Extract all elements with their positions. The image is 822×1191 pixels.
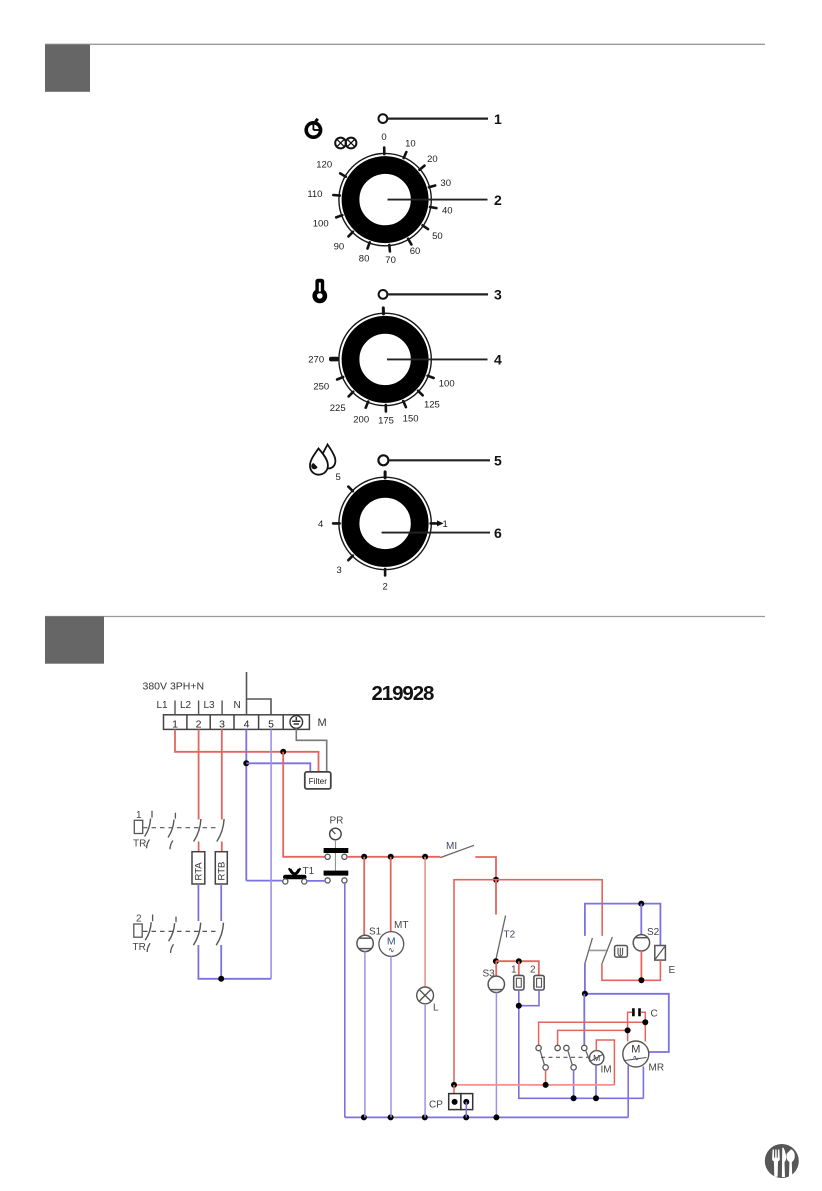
wire red IM feed loop xyxy=(596,1040,614,1085)
node solenoid1 tap xyxy=(516,958,522,964)
svg-text:4: 4 xyxy=(494,352,502,368)
wire blue bottom neutral rail xyxy=(345,1116,628,1118)
svg-text:2: 2 xyxy=(196,718,202,730)
wire L1 red: terminal1 down, right, into filter xyxy=(175,729,319,772)
thermometer icon xyxy=(312,279,327,304)
svg-text:PR: PR xyxy=(330,816,344,827)
wire blue T1 to PR lower contact xyxy=(307,880,325,882)
svg-text:40: 40 xyxy=(442,205,453,216)
wire blue lamp return xyxy=(424,1004,426,1118)
svg-text:2: 2 xyxy=(136,914,142,925)
svg-text:RTB: RTB xyxy=(216,862,227,881)
svg-text:S1: S1 xyxy=(369,927,382,938)
wire red capacitor left leg xyxy=(628,1012,633,1030)
svg-text:100: 100 xyxy=(313,218,329,229)
nodes on mid blue rail xyxy=(571,1095,577,1101)
svg-text:L3: L3 xyxy=(204,700,216,711)
knob K3 pointer line to callout 6 xyxy=(382,532,490,534)
node heater return junction xyxy=(218,976,224,982)
svg-text:S2: S2 xyxy=(647,927,660,938)
node MI/T2 junction xyxy=(493,877,499,883)
terminal stubs above terminals 1-3 xyxy=(175,701,222,715)
wire red main feed down from L1 junction xyxy=(283,752,326,857)
svg-text:70: 70 xyxy=(385,255,396,266)
svg-text:5: 5 xyxy=(494,453,502,469)
node S2 tap xyxy=(638,901,644,907)
svg-text:1: 1 xyxy=(494,111,502,127)
svg-text:0: 0 xyxy=(381,132,386,143)
svg-text:250: 250 xyxy=(313,382,329,393)
callout line 3 xyxy=(388,293,489,295)
capacitor C plates xyxy=(633,1008,639,1016)
wire blue branch to filter xyxy=(246,763,310,772)
wire blue S3 down to bottom rail xyxy=(495,993,497,1118)
svg-text:2: 2 xyxy=(494,192,502,208)
wire N blue: terminal4 down, junction, right to T1 xyxy=(246,729,282,880)
svg-text:219928: 219928 xyxy=(372,682,435,705)
node S2 bottom junction xyxy=(638,977,644,983)
svg-text:1: 1 xyxy=(136,810,142,821)
microswitch MI xyxy=(440,845,474,857)
node selector red tap xyxy=(543,1082,549,1088)
timer icon xyxy=(306,119,320,137)
thermostat TR2 body xyxy=(134,924,142,937)
wire L2 red: terminal2 down to TR1 contact xyxy=(198,729,200,819)
node T2/S3 junction xyxy=(493,958,499,964)
svg-text:4: 4 xyxy=(318,519,323,530)
wire blue PR lower right terminal down to bottom rail xyxy=(344,883,346,1117)
svg-text:E: E xyxy=(669,965,676,976)
TR2 contact arms xyxy=(145,922,223,945)
svg-text:N: N xyxy=(234,700,241,711)
svg-text:3: 3 xyxy=(494,287,502,303)
svg-text:30: 30 xyxy=(440,178,451,189)
TR2 mechanical dashed link xyxy=(143,930,219,932)
svg-text:TR: TR xyxy=(133,839,146,850)
node CP red tap xyxy=(451,1082,457,1088)
knob K1 timer dial xyxy=(333,148,436,252)
PE earth terminal symbol xyxy=(290,716,303,729)
wire red S1 drop xyxy=(363,857,365,936)
knob K3 scale numbers 1-5 xyxy=(318,472,448,593)
wire blue RTB down to TR2 xyxy=(220,884,222,921)
knob K2 pointer line to callout 4 xyxy=(387,358,488,360)
terminal numbers 1 2 3 4 5 xyxy=(172,718,274,730)
svg-text:125: 125 xyxy=(424,400,440,411)
wire red MI to T2 junction xyxy=(475,857,496,880)
speed selector contact terminals xyxy=(536,1045,587,1070)
wire terminal5 blue down to heater return rail xyxy=(270,729,272,978)
callout line 5 xyxy=(389,459,491,461)
knob K2 temperature dial xyxy=(329,308,434,412)
wire red capacitor right leg xyxy=(641,1012,646,1022)
lamp L xyxy=(417,987,434,1004)
svg-text:20: 20 xyxy=(427,154,438,165)
wire red T2 drop xyxy=(495,880,497,915)
callout line 1 xyxy=(387,117,488,119)
svg-text:T1: T1 xyxy=(303,866,315,877)
knob K1 scale numbers 0-120 xyxy=(307,132,452,266)
svg-text:TR: TR xyxy=(133,942,146,953)
PR gauge xyxy=(330,828,342,840)
N supply line into terminal 4 and bridge to terminal 5 xyxy=(247,672,272,715)
wire red speed line 2 xyxy=(558,1030,628,1045)
node cap left junction xyxy=(625,1027,631,1033)
svg-text:1: 1 xyxy=(172,718,178,730)
PR lower contact terminals xyxy=(325,878,330,883)
svg-text:L2: L2 xyxy=(180,700,192,711)
wire blue RTA down to TR2 xyxy=(197,884,199,921)
svg-text:4: 4 xyxy=(244,718,250,730)
section 1 gray marker square xyxy=(45,45,90,92)
svg-text:380V 3PH+N: 380V 3PH+N xyxy=(143,681,205,693)
wire red cross rail y880 xyxy=(454,880,602,1085)
svg-text:3: 3 xyxy=(219,718,225,730)
wire red S2/E bottom rail xyxy=(602,960,661,980)
filter box xyxy=(305,772,331,789)
switch T1 symbol xyxy=(283,868,307,884)
footer cutlery logo xyxy=(765,1144,799,1178)
svg-text:1: 1 xyxy=(442,519,447,530)
wire red bottom feed rail xyxy=(454,1084,614,1086)
svg-text:∿: ∿ xyxy=(388,946,394,955)
node junction on L1 feed xyxy=(280,749,286,755)
svg-text:50: 50 xyxy=(432,231,443,242)
svg-text:IM: IM xyxy=(601,1065,612,1076)
svg-text:C: C xyxy=(651,1009,658,1020)
svg-text:M: M xyxy=(318,717,327,729)
wire red lamp L drop xyxy=(424,857,426,987)
svg-text:80: 80 xyxy=(359,253,370,264)
contactor U twin contacts xyxy=(585,937,613,964)
section 2 gray marker square xyxy=(45,616,104,663)
PR upper contact terminals xyxy=(325,854,330,859)
svg-text:270: 270 xyxy=(308,355,324,366)
wire blue MT return xyxy=(390,956,392,1117)
svg-text:1: 1 xyxy=(511,965,517,976)
wire red TR1 to RTA xyxy=(198,842,200,852)
terminal block M xyxy=(164,715,310,730)
svg-text:L1: L1 xyxy=(157,700,169,711)
svg-text:Filter: Filter xyxy=(309,776,328,786)
node cap right junction xyxy=(642,1019,648,1025)
indicator circle above K1 xyxy=(379,114,388,123)
section 1 header rule xyxy=(45,43,765,45)
svg-text:L: L xyxy=(433,1003,439,1014)
svg-text:3: 3 xyxy=(336,565,341,576)
wire red CP drop xyxy=(453,1085,455,1102)
wire blue contact 4 drop xyxy=(583,994,585,1046)
svg-text:150: 150 xyxy=(403,413,419,424)
wire blue upper right rail xyxy=(585,904,661,946)
PR contact bar upper xyxy=(324,848,349,853)
wire red selector common to bottom rail xyxy=(545,1070,547,1085)
svg-text:5: 5 xyxy=(335,472,340,483)
TR1 contact poles (stubs) xyxy=(147,811,176,850)
wire red MT drop xyxy=(390,857,392,932)
svg-text:MT: MT xyxy=(394,920,408,931)
svg-text:120: 120 xyxy=(316,160,332,171)
wire blue S1 return xyxy=(364,952,366,1118)
svg-text:60: 60 xyxy=(410,246,421,257)
svg-text:90: 90 xyxy=(334,241,345,252)
speed selector arms xyxy=(540,1050,590,1065)
knob K2 scale numbers 100-270 xyxy=(308,355,454,427)
svg-text:∿: ∿ xyxy=(632,1054,639,1063)
node S1 tap xyxy=(361,854,367,860)
svg-text:6: 6 xyxy=(494,525,502,541)
wire blue heater return rail xyxy=(198,945,271,979)
wire blue IM return xyxy=(595,1065,597,1098)
wire red speed line 1 xyxy=(539,1022,646,1045)
nodes on bottom neutral rail xyxy=(361,1114,367,1120)
coil box U xyxy=(615,946,628,958)
thermostat TR1 body xyxy=(134,820,142,833)
svg-text:200: 200 xyxy=(353,415,369,426)
svg-text:175: 175 xyxy=(378,415,394,426)
motor IM xyxy=(590,1051,604,1065)
wire blue CP return xyxy=(465,1102,467,1118)
svg-text:2: 2 xyxy=(530,965,536,976)
wire red TR1 to RTB xyxy=(221,842,223,852)
svg-text:T2: T2 xyxy=(504,930,516,941)
section 2 header rule xyxy=(45,616,765,618)
heating element RTA xyxy=(192,852,205,884)
svg-text:5: 5 xyxy=(268,718,274,730)
wire blue left down to MR rail xyxy=(584,963,586,993)
svg-text:100: 100 xyxy=(439,379,455,390)
speed selector dashed link xyxy=(541,1056,592,1058)
svg-text:10: 10 xyxy=(405,138,416,149)
svg-text:MR: MR xyxy=(649,1063,665,1074)
wire blue selector pole2 to mid rail xyxy=(573,1070,575,1098)
wire L3 red: terminal3 down to TR1 contact xyxy=(221,729,223,819)
heating element RTB xyxy=(215,852,227,884)
svg-text:2: 2 xyxy=(382,581,387,592)
water drops icon xyxy=(310,445,335,475)
wire red S3 rail to solenoids 1,2 xyxy=(496,961,539,975)
svg-text:110: 110 xyxy=(307,189,322,200)
node junction terminal4/filter branch xyxy=(243,760,249,766)
svg-text:225: 225 xyxy=(330,403,346,414)
knob K1 pointer line to callout 2 xyxy=(388,199,488,201)
node MR rail junction xyxy=(582,991,588,997)
PR actuator link xyxy=(334,840,336,871)
node MT tap xyxy=(388,854,394,860)
phase labels L1 L2 L3 N xyxy=(157,700,241,711)
wire blue MR feed rail xyxy=(585,994,669,1052)
svg-text:CP: CP xyxy=(429,1100,443,1111)
knob K3 humidity dial xyxy=(333,472,443,576)
motor MR xyxy=(623,1041,649,1067)
wire blue MR bottom-right to mid rail xyxy=(642,1066,644,1098)
TR1 contact arms xyxy=(145,819,225,842)
node L tap xyxy=(422,854,428,860)
thermostat contact T2 xyxy=(496,916,506,960)
indicator circle above K2 xyxy=(379,290,388,299)
TR1 mechanical dashed link xyxy=(143,827,219,829)
wire PE gray to filter xyxy=(296,728,326,772)
wire blue MR bottom-left to bottom rail xyxy=(627,1066,629,1118)
wire red rail PR to MI xyxy=(347,856,440,858)
svg-text:MI: MI xyxy=(446,841,457,852)
TR2 contact poles (stubs) xyxy=(147,915,176,954)
svg-text:RTA: RTA xyxy=(194,862,205,881)
node solenoid return junction xyxy=(516,1003,522,1009)
igniter E xyxy=(655,946,666,961)
PR contact bar lower xyxy=(324,871,349,876)
continuous-run icon (two crossed rings) xyxy=(335,138,356,149)
indicator circle above K3 xyxy=(378,455,388,465)
wire blue solenoid returns xyxy=(519,990,644,1098)
